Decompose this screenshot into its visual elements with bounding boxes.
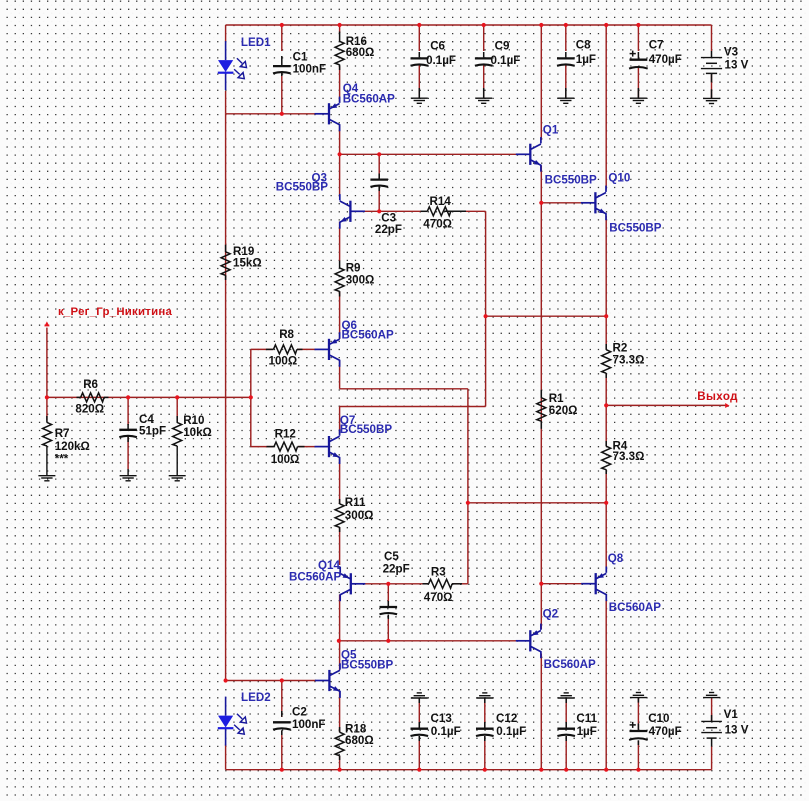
svg-text:C1: C1 <box>293 50 308 63</box>
wire LED1 anode from bus <box>225 25 227 42</box>
svg-text:100nF: 100nF <box>292 718 326 731</box>
junction bottom bus / C12 <box>483 768 487 772</box>
capacitor C3 plates <box>370 178 388 180</box>
wire C9 top lead <box>483 25 485 51</box>
ground V3 <box>703 97 720 99</box>
wire C1 bottom lead <box>281 74 283 114</box>
transistor Q3 base bar <box>349 201 351 222</box>
resistor R10 body <box>173 423 182 447</box>
svg-text:R6: R6 <box>83 378 98 391</box>
svg-text:к_Рег_Гр_Никитина: к_Рег_Гр_Никитина <box>58 306 172 318</box>
wire Q3 base row to R14 y=211.3 <box>353 210 421 212</box>
wire Q5 emitter to R18 <box>339 692 341 732</box>
junction input / R10 <box>175 395 179 399</box>
wire V3 top lead from bus <box>711 25 713 51</box>
capacitor C6 plates <box>411 57 429 59</box>
wire R4 bottom to node E <box>605 470 607 503</box>
wire C1 top lead <box>281 25 283 51</box>
wire Q2 collector to bottom bus <box>540 654 542 770</box>
junction node D left <box>484 314 488 318</box>
junction bottom bus / Q2 <box>539 768 543 772</box>
junction Q8 base / R1-Q2 <box>539 582 543 586</box>
svg-text:470Ω: 470Ω <box>423 217 452 230</box>
junction top bus / R16 <box>338 23 342 27</box>
resistor R11 body <box>335 504 344 528</box>
wire Q5 base row y=680.5 <box>226 680 316 682</box>
junction bottom bus / Q8 <box>604 768 608 772</box>
wire Q10 emitter down to node D <box>605 216 607 316</box>
wire bottom bus <box>226 769 712 771</box>
wire C13 leads <box>418 698 420 728</box>
ground R7 <box>38 475 55 477</box>
svg-text:R12: R12 <box>275 427 296 440</box>
junction top bus / C1 <box>280 23 284 27</box>
wire R10 ground lead <box>176 446 178 476</box>
wire C7 top lead <box>637 25 639 51</box>
transistor Q1 base bar <box>529 144 531 165</box>
wire Q14 collector down to node F <box>339 595 341 641</box>
ground C9 <box>475 97 492 99</box>
wire R16 bottom to Q4 emitter <box>339 66 341 102</box>
svg-text:BC550BP: BC550BP <box>276 181 328 194</box>
wire LED2 cathode to bottom bus <box>225 745 227 770</box>
svg-text:470µF: 470µF <box>649 725 682 738</box>
wire input terminal drop <box>46 328 48 398</box>
transistor Q4 emitter diagonal <box>330 120 340 125</box>
transistor Q7 base bar <box>328 436 330 457</box>
LED LED2 triangle <box>218 716 233 728</box>
input terminal к_Рег_Гр_Никитина <box>44 321 49 326</box>
svg-text:0.1µF: 0.1µF <box>491 54 521 67</box>
wire output node to R4 <box>605 405 607 446</box>
capacitor C5 plates <box>380 606 398 608</box>
wire Q7 collector row y=406.5 <box>340 406 486 408</box>
wire C6 ground lead <box>418 65 420 98</box>
wire node F row to Q2 base y=640.8 <box>339 640 517 642</box>
wire R2 bottom to output node <box>605 373 607 405</box>
wire C12 leads <box>484 698 486 728</box>
wire C2 top lead <box>281 681 283 718</box>
ground C10 (inverted) <box>636 692 641 694</box>
svg-text:0.1µF: 0.1µF <box>426 54 456 67</box>
transistor Q10 base bar <box>594 192 596 213</box>
svg-text:300Ω: 300Ω <box>346 274 375 287</box>
transistor Q1 base lead <box>516 153 531 155</box>
wire Q2 emitter lead <box>540 584 542 629</box>
svg-text:C13: C13 <box>431 712 453 725</box>
svg-text:BC560AP: BC560AP <box>342 328 394 341</box>
wire Q5 collector to node F <box>339 641 341 670</box>
capacitor C11 plates <box>557 728 575 730</box>
svg-text:0.1µF: 0.1µF <box>431 725 461 738</box>
transistor Q4 arrow <box>331 103 338 108</box>
wire Q1 emitter to node C <box>540 166 542 203</box>
svg-text:22pF: 22pF <box>383 563 410 576</box>
wire C10 leads <box>637 698 639 730</box>
svg-text:300Ω: 300Ω <box>345 509 374 522</box>
svg-text:C8: C8 <box>576 39 591 52</box>
wire R18 bottom to bottom bus <box>339 756 341 770</box>
svg-text:Q2: Q2 <box>543 607 558 620</box>
wire Q8 base row y=583.7 <box>541 583 583 585</box>
junction bottom bus / C10 <box>636 768 640 772</box>
transistor Q2 base bar <box>529 630 531 651</box>
junction node E / R4 <box>604 501 608 505</box>
svg-text:C6: C6 <box>430 40 445 53</box>
wire C4 top lead <box>127 397 129 425</box>
wire R3 right lead to mid vertical <box>452 583 468 585</box>
svg-text:73.3Ω: 73.3Ω <box>613 354 645 367</box>
wire Q7 collector up <box>339 407 341 435</box>
wire C11 leads <box>565 698 567 728</box>
wire C7 ground lead <box>637 68 639 98</box>
svg-text:Выход: Выход <box>697 390 738 403</box>
resistor R2 body <box>602 350 611 374</box>
transistor Q6 base lead <box>315 348 330 350</box>
svg-text:R7: R7 <box>55 427 70 440</box>
wire Q7 emitter to R11 <box>339 458 341 504</box>
wire input row y=397.4 <box>47 396 251 398</box>
junction node E left <box>466 501 470 505</box>
svg-text:C7: C7 <box>649 39 664 52</box>
svg-text:100Ω: 100Ω <box>269 354 298 367</box>
wire C9 ground lead <box>483 65 485 98</box>
wire R8 right lead to Q6 base <box>297 348 314 350</box>
LED LED1 cathode bar <box>218 72 234 74</box>
wire R1 column from node C <box>540 203 542 584</box>
svg-text:680Ω: 680Ω <box>345 734 374 747</box>
svg-text:C12: C12 <box>496 712 517 725</box>
transistor Q14 base bar <box>350 573 352 594</box>
capacitor C8 plates <box>557 57 575 59</box>
junction top bus / C7 <box>636 23 640 27</box>
wire Q6 collector down <box>339 361 341 389</box>
LED LED1 emission arrows <box>237 58 242 63</box>
resistor R14 body <box>427 207 451 216</box>
LED LED1 triangle <box>218 60 233 72</box>
transistor Q6 collector diagonal <box>330 339 340 344</box>
ground C7 <box>630 97 647 99</box>
transistor Q5 base lead <box>315 680 330 682</box>
svg-text:BC560AP: BC560AP <box>289 571 341 584</box>
junction node B / Q4-Q3 <box>338 152 342 156</box>
svg-text:13 V: 13 V <box>725 724 749 737</box>
svg-text:V1: V1 <box>724 708 739 721</box>
battery V3 cells <box>701 57 722 59</box>
wire Q1 collector column from bus <box>540 25 542 140</box>
wire C3 top lead <box>378 154 380 178</box>
junction input / R8-R12 feed <box>249 395 253 399</box>
wire C4 bottom lead <box>127 437 129 469</box>
capacitor C2 plates <box>273 721 291 723</box>
capacitor C7 plus sign <box>630 53 636 55</box>
svg-text:Q1: Q1 <box>543 124 559 137</box>
wire Q10 collector column from bus <box>605 25 607 190</box>
ground V1 (inverted) <box>709 692 714 694</box>
junction bottom bus / R18 <box>338 768 342 772</box>
capacitor C7 plates <box>630 59 648 61</box>
transistor Q4 base bar <box>328 103 330 124</box>
transistor Q8 base lead <box>581 583 596 585</box>
wire R9 bottom to Q6 emitter <box>339 291 341 339</box>
svg-text:LED2: LED2 <box>241 691 271 704</box>
transistor Q14 base lead <box>351 583 366 585</box>
svg-text:1µF: 1µF <box>577 725 597 738</box>
resistor R9 body <box>335 268 344 292</box>
svg-text:13 V: 13 V <box>725 59 749 72</box>
ground C8 <box>557 97 574 99</box>
wire C8 top lead <box>565 25 567 51</box>
svg-text:Q10: Q10 <box>608 172 630 185</box>
ground C13 (inverted) <box>417 692 422 694</box>
capacitor C12 plates <box>476 728 494 730</box>
wire Q4 collector to node B <box>339 125 341 154</box>
svg-text:R14: R14 <box>430 195 452 208</box>
transistor Q3 emitter diagonal <box>340 217 350 222</box>
svg-text:C10: C10 <box>648 712 669 725</box>
svg-text:R9: R9 <box>346 261 361 274</box>
svg-text:C9: C9 <box>495 40 510 53</box>
resistor R4 body <box>602 446 611 470</box>
svg-text:820Ω: 820Ω <box>75 402 104 415</box>
wire node B row to Q1 base y=154.3 <box>340 153 517 155</box>
LED LED2 anode lead <box>225 697 227 716</box>
transistor Q2 arrow <box>532 630 539 635</box>
grid dots <box>6 1 8 801</box>
junction LED2 / Q5 base <box>224 678 228 682</box>
LED LED2 cathode bar <box>218 727 234 729</box>
junction top bus / Q10 <box>604 23 608 27</box>
svg-text:15kΩ: 15kΩ <box>233 256 262 269</box>
svg-text:R11: R11 <box>345 496 366 509</box>
wire V1 ground stub <box>711 698 713 721</box>
wire R14 vertical down to Q7 collector row <box>485 211 487 406</box>
transistor Q2 base lead <box>516 640 531 642</box>
capacitor C4 plates <box>119 429 137 431</box>
LED LED1 cathode lead <box>225 73 227 90</box>
transistor Q1 arrow <box>534 160 541 165</box>
svg-text:620Ω: 620Ω <box>549 404 578 417</box>
svg-text:73.3Ω: 73.3Ω <box>613 450 645 463</box>
svg-text:***: *** <box>55 453 69 466</box>
wire node E to Q8 emitter <box>605 503 607 571</box>
wire R11 bottom to Q14 emitter <box>339 527 341 565</box>
junction bottom bus / C2 <box>280 768 284 772</box>
resistor R8 body <box>273 345 297 354</box>
transistor Q5 emitter diagonal <box>330 686 340 691</box>
svg-text:10kΩ: 10kΩ <box>183 426 212 439</box>
wire R16 top lead <box>339 25 341 33</box>
transistor Q4 base lead <box>315 113 330 115</box>
svg-text:1µF: 1µF <box>576 53 596 66</box>
svg-text:470Ω: 470Ω <box>424 591 453 604</box>
ground C6 <box>411 97 428 99</box>
transistor Q8 emitter diagonal <box>596 589 606 594</box>
wire Q3 collector to node B <box>339 154 341 196</box>
transistor Q1 emitter diagonal <box>531 160 541 165</box>
resistor R3 body <box>429 579 453 588</box>
transistor Q6 base bar <box>328 339 330 360</box>
junction top bus / Q1 <box>539 23 543 27</box>
lead stubs (black pin segments) <box>281 56 283 65</box>
wire Q3 emitter to R9 <box>339 222 341 262</box>
svg-text:22pF: 22pF <box>375 223 402 236</box>
resistor R19 body <box>221 252 230 275</box>
transistor Q1 collector diagonal <box>531 144 541 149</box>
capacitor C13 plates <box>411 728 429 730</box>
wire R12 right lead to Q7 base <box>298 446 315 448</box>
capacitor C9 plates <box>475 57 493 59</box>
svg-text:C2: C2 <box>292 706 307 719</box>
junction node F / Q14-Q5 <box>337 639 341 643</box>
LED LED2 emission arrows <box>237 714 242 719</box>
transistor Q8 collector diagonal <box>596 573 606 578</box>
transistor Q7 base lead <box>315 446 330 448</box>
svg-text:BC560AP: BC560AP <box>544 658 596 671</box>
ground C4 <box>120 475 137 477</box>
wire Q14 base row / R3 row y=583.8 <box>354 583 429 585</box>
ground R10 <box>169 475 186 477</box>
svg-text:0.1µF: 0.1µF <box>496 725 526 738</box>
transistor Q7 arrow <box>333 452 340 457</box>
wire C6 top lead <box>418 25 420 51</box>
svg-text:Q8: Q8 <box>608 552 624 565</box>
svg-text:100Ω: 100Ω <box>271 453 300 466</box>
resistor R7 body <box>43 423 52 447</box>
resistor R12 body <box>274 442 298 451</box>
wire R10 top lead <box>176 397 178 420</box>
wire node D row y=315.4 <box>486 315 607 317</box>
transistor Q4 collector diagonal <box>330 104 340 109</box>
svg-text:R8: R8 <box>279 328 294 341</box>
wire R8 left lead <box>251 348 273 350</box>
wire node A row (LED1/C1 to Q4 base) y=113.8 <box>226 113 316 115</box>
transistor Q6 arrow <box>331 339 338 344</box>
svg-text:BC550BP: BC550BP <box>341 658 393 671</box>
wire C4 ground lead <box>127 469 129 476</box>
svg-text:BC550BP: BC550BP <box>545 173 597 186</box>
ground C11 (inverted) <box>564 692 569 694</box>
transistor Q10 arrow <box>599 208 606 213</box>
junction C5 bottom / node F <box>386 639 390 643</box>
wire Q8 collector to bottom bus <box>605 597 607 770</box>
wire C3 bottom lead <box>378 187 380 212</box>
junction node A / C1 <box>280 112 284 116</box>
capacitor C10 plus sign <box>630 724 636 726</box>
wire C2 bottom lead <box>281 731 283 770</box>
junction input / R7 <box>45 395 49 399</box>
ground C12 (inverted) <box>482 692 487 694</box>
transistor Q3 arrow <box>340 217 347 222</box>
junction node C / Q10 base <box>539 201 543 205</box>
junction C2 top <box>280 678 284 682</box>
junction node D / Q10 emitter <box>604 314 608 318</box>
transistor Q5 arrow <box>333 686 340 691</box>
junction bottom bus / C13 <box>417 768 421 772</box>
transistor Q14 emitter diagonal <box>340 590 350 595</box>
wire Q6 collector row y=388.8 <box>340 388 468 390</box>
svg-text:470µF: 470µF <box>649 53 682 66</box>
resistor R18 body <box>335 732 344 756</box>
svg-text:C5: C5 <box>384 550 399 563</box>
transistor Q10 collector diagonal <box>596 193 606 198</box>
wire R14 right lead to vertical <box>445 210 486 212</box>
svg-text:100nF: 100nF <box>293 62 327 75</box>
svg-text:LED1: LED1 <box>241 36 271 49</box>
wire node E row y=502.8 <box>468 502 606 504</box>
capacitor C10 plates <box>630 730 648 732</box>
transistor Q3 base lead <box>350 210 365 212</box>
wire left bias bus through R19 <box>225 114 227 681</box>
svg-text:BC550BP: BC550BP <box>340 423 392 436</box>
resistor R1 body <box>537 398 546 422</box>
wire node C row Q10 base y=202.8 <box>541 202 581 204</box>
output terminal Выход <box>725 403 729 408</box>
transistor Q5 collector diagonal <box>330 670 340 675</box>
wire C5 bottom lead <box>387 615 389 641</box>
junction bottom bus / C11 <box>564 768 568 772</box>
wire node D to R2 <box>605 316 607 350</box>
resistor R6 body <box>81 393 105 402</box>
transistor Q6 emitter diagonal <box>330 355 340 360</box>
wire R12 left lead <box>251 446 274 448</box>
junction input / C4 <box>126 395 130 399</box>
transistor Q14 collector diagonal <box>340 574 350 579</box>
wire R7 top lead <box>46 397 48 420</box>
transistor Q14 arrow <box>343 573 350 578</box>
resistor R16 body <box>335 41 344 65</box>
svg-text:BC560AP: BC560AP <box>343 92 395 105</box>
transistor Q8 base bar <box>595 573 597 594</box>
transistor Q10 emitter diagonal <box>596 209 606 214</box>
wire V3 ground lead <box>711 75 713 99</box>
transistor Q8 arrow <box>597 573 604 578</box>
junction output node <box>604 403 608 407</box>
svg-text:BC550BP: BC550BP <box>609 221 661 234</box>
svg-text:51pF: 51pF <box>139 425 166 438</box>
junction C3 bottom / Q3 base <box>377 209 381 213</box>
junction top bus / C8 <box>564 23 568 27</box>
junction node B / C3 top <box>377 152 381 156</box>
wire V1 bottom lead riser <box>711 747 713 770</box>
junction C5 top / Q14 base <box>386 582 390 586</box>
wire mid vertical x=467.9 <box>467 389 469 584</box>
svg-text:R3: R3 <box>431 566 446 579</box>
transistor Q7 emitter diagonal <box>330 452 340 457</box>
wire top supply bus <box>226 24 712 26</box>
transistor Q2 emitter diagonal <box>531 647 541 652</box>
LED LED2 cathode lead <box>225 729 227 746</box>
svg-text:C11: C11 <box>576 712 597 725</box>
transistor Q2 collector diagonal <box>531 631 541 636</box>
wire C5 top lead <box>387 584 389 607</box>
wire R7 ground lead <box>46 446 48 476</box>
svg-text:V3: V3 <box>724 45 739 58</box>
junction top bus / C9 <box>482 23 486 27</box>
wire output row y=405.4 <box>606 404 726 406</box>
wire R8/R12 feed vertical x=250.8 <box>250 349 252 446</box>
svg-text:120kΩ: 120kΩ <box>55 440 90 453</box>
transistor Q3 collector diagonal <box>340 201 350 206</box>
wire C8 ground lead <box>565 65 567 98</box>
capacitor C1 plates <box>273 65 291 67</box>
junction top bus / C6 <box>417 23 421 27</box>
svg-text:BC560AP: BC560AP <box>609 601 661 614</box>
transistor Q10 base lead <box>581 202 596 204</box>
svg-text:680Ω: 680Ω <box>346 46 375 59</box>
transistor Q5 base bar <box>328 670 330 691</box>
LED LED1 anode lead <box>225 41 227 60</box>
